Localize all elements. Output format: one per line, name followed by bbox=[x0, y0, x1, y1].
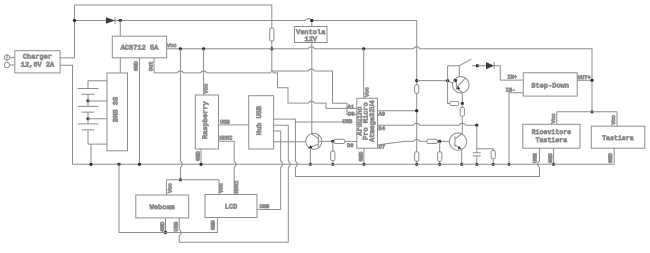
svg-text:BMS 3S: BMS 3S bbox=[112, 97, 120, 122]
svg-text:Vcc: Vcc bbox=[167, 43, 177, 49]
label USB ProMicro bbox=[343, 118, 356, 124]
switch SW1 bbox=[448, 59, 478, 65]
resistor R10 bbox=[332, 141, 334, 151]
svg-text:GND: GND bbox=[134, 61, 140, 71]
svg-text:Webcam: Webcam bbox=[150, 204, 175, 212]
node bus battery bbox=[89, 163, 92, 166]
svg-text:Vcc: Vcc bbox=[167, 183, 173, 193]
node bus ACS GND bbox=[138, 163, 141, 166]
wire ProMicro GND bbox=[363, 148, 365, 164]
wire Raspberry GND bbox=[200, 149, 202, 164]
node A0/R2 bbox=[415, 109, 418, 112]
svg-text:D4: D4 bbox=[379, 126, 385, 132]
node R3 / R4 bbox=[461, 102, 464, 105]
wire Hub w1 to ProMicro USB bbox=[274, 119, 357, 122]
wire Q1 base line bbox=[417, 81, 453, 84]
fan M1 Ventola 12V bbox=[295, 27, 328, 43]
node at R1 / 5V rail bbox=[270, 47, 273, 50]
node switch/diode bbox=[476, 64, 479, 67]
wire OUT+ bbox=[577, 79, 592, 81]
svg-text:D8: D8 bbox=[348, 111, 354, 117]
svg-text:GND: GND bbox=[358, 152, 364, 162]
resistor R9 bbox=[334, 139, 345, 143]
wire A0 to 12V pullup node bbox=[378, 110, 417, 112]
resistor R5 bbox=[427, 139, 438, 143]
wire Hub w1 branch down to Ricevitore USB line bbox=[295, 122, 539, 177]
wire Ventola+ to 12V bbox=[311, 21, 313, 27]
pin GND wire to ground bus bbox=[139, 58, 141, 165]
svg-text:12V: 12V bbox=[305, 36, 318, 44]
wire Raspberry Vcc drop bbox=[203, 49, 205, 95]
wire 12V rail bbox=[75, 19, 417, 49]
receiver U7 Ricevitore Tastiera bbox=[523, 124, 580, 148]
node R10 bus bbox=[331, 163, 334, 166]
svg-text:ACS712 5A: ACS712 5A bbox=[121, 45, 159, 53]
resistor R3 bbox=[450, 101, 459, 105]
wire ProMicro Vcc drop bbox=[363, 49, 365, 99]
node Q2 emitter bus bbox=[460, 163, 463, 166]
diode D1 bbox=[106, 17, 115, 24]
svg-text:Vcc: Vcc bbox=[611, 115, 617, 125]
transistor Q3 bbox=[306, 133, 322, 149]
svg-text:A0: A0 bbox=[379, 112, 385, 118]
wire 5V rail bbox=[167, 47, 592, 112]
svg-text:Raspberry: Raspberry bbox=[202, 101, 210, 139]
svg-text:Vcc: Vcc bbox=[219, 183, 225, 193]
wire Hub w2 to Webcam USB bbox=[179, 125, 290, 242]
wire cap node to R8 bbox=[477, 149, 493, 151]
diode D2 bbox=[477, 65, 486, 67]
wire Raspberry HDMI to LCD bbox=[219, 141, 237, 194]
wire Q3 emitter to bus bbox=[309, 149, 311, 164]
wire IN- to bus bbox=[509, 93, 523, 165]
svg-text:GND: GND bbox=[196, 151, 202, 161]
node OUT+ rail bbox=[590, 79, 593, 82]
svg-text:Vcc: Vcc bbox=[203, 84, 209, 94]
node rail Raspberry Vcc drop bbox=[202, 47, 205, 50]
wire D4 line bbox=[378, 123, 477, 125]
pin Out wire down bbox=[153, 58, 155, 73]
wire Q2 emitter to bus bbox=[461, 150, 463, 164]
svg-text:D9: D9 bbox=[347, 143, 353, 149]
charger CH1 bbox=[15, 51, 60, 73]
node R5 / R7 bbox=[438, 140, 441, 143]
node D4 line end bbox=[475, 124, 478, 127]
wire Hub w4 to Q3 base bbox=[274, 141, 306, 143]
node base line / switch riser bbox=[446, 79, 449, 82]
svg-text:LCD: LCD bbox=[225, 204, 238, 212]
battery B1 pack lead bottom bbox=[88, 143, 107, 145]
transistor Q1 bbox=[453, 77, 469, 93]
node R6 bus bbox=[415, 163, 418, 166]
node R8 bus bbox=[492, 163, 495, 166]
sensor U2 ACS712 5A bbox=[112, 36, 166, 58]
wire Hub w3 to LCD USB bbox=[257, 131, 283, 210]
node Q3 collector / R10 bbox=[331, 140, 334, 143]
svg-text:Charger: Charger bbox=[23, 54, 52, 62]
node Vcc tee bbox=[590, 110, 593, 113]
wire ground bus bbox=[73, 163, 615, 165]
wire GND return line bbox=[119, 164, 217, 232]
battery B1 pack lead top bbox=[88, 81, 107, 89]
resistor R1 bbox=[270, 28, 274, 41]
node ProMicro GND bus bbox=[362, 163, 365, 166]
svg-text:Tastiera: Tastiera bbox=[602, 135, 634, 142]
capacitor C1 bbox=[473, 153, 481, 156]
converter U6 Step-Down bbox=[523, 73, 577, 96]
svg-text:GND: GND bbox=[210, 220, 216, 230]
node Webcam GND line bbox=[164, 231, 167, 234]
resistor R8 bbox=[491, 151, 495, 159]
svg-text:GND: GND bbox=[160, 222, 166, 232]
pin IP- wire to BMS pack+ bbox=[119, 58, 121, 73]
wire Tastiera GND bbox=[613, 148, 615, 164]
svg-text:Vcc: Vcc bbox=[551, 114, 557, 124]
wire 12V into ACS712 pin IP+ bbox=[119, 21, 121, 37]
svg-text:USB: USB bbox=[220, 119, 230, 125]
resistor R7 bbox=[439, 141, 441, 151]
node C1 bus bbox=[475, 163, 478, 166]
node R2 top / Q1 base line bbox=[415, 79, 418, 82]
svg-text:Vcc: Vcc bbox=[365, 87, 371, 97]
svg-text:D7: D7 bbox=[379, 145, 385, 151]
hub U5 Hub USB bbox=[249, 96, 274, 149]
wire Vcc tee to receivers bbox=[557, 112, 617, 126]
svg-text:A1: A1 bbox=[348, 104, 354, 110]
wire Q3 collector right bbox=[318, 140, 334, 142]
node Q3 emitter bus bbox=[309, 163, 312, 166]
node rail webcam/LCD Vcc drop bbox=[179, 47, 182, 50]
svg-text:IN-: IN- bbox=[506, 87, 516, 93]
svg-text:Out: Out bbox=[148, 61, 154, 71]
svg-text:Hub USB: Hub USB bbox=[256, 106, 264, 135]
wire webcam/LCD Vcc drop bbox=[180, 49, 182, 180]
wire Webcam USB pin bbox=[179, 218, 181, 242]
wire battery- to ground bus bbox=[90, 144, 92, 164]
wire Ventola- down to Q3 bbox=[311, 43, 313, 135]
wire Q1 emitter down bbox=[461, 93, 463, 104]
wire R5 to Q2 base bbox=[438, 140, 450, 142]
computer U4 Raspberry bbox=[195, 95, 218, 149]
wire top charge loop bbox=[75, 5, 272, 58]
svg-text:Step-Down: Step-Down bbox=[531, 83, 569, 91]
node 12V at ACS712 input bbox=[119, 19, 122, 22]
wire R1 node down to Out line bbox=[271, 49, 273, 71]
module U3 BMS 3S bbox=[107, 73, 128, 151]
svg-text:USB: USB bbox=[260, 204, 270, 210]
wire Webcam GND bbox=[165, 218, 167, 233]
wire Ricevitore GND bbox=[553, 148, 555, 164]
wire charger+ to 12V line bbox=[60, 57, 74, 59]
wire D2 to IN+ bbox=[494, 66, 523, 80]
charger terminal - bbox=[4, 62, 9, 67]
svg-text:GND: GND bbox=[608, 153, 614, 163]
mcu U1 Arduino Pro Micro bbox=[357, 98, 378, 148]
svg-text:USB: USB bbox=[174, 221, 180, 231]
wire R1 to 5V rail bbox=[271, 41, 273, 49]
node IN- bus bbox=[507, 163, 510, 166]
wire Raspberry USB to Hub bbox=[219, 124, 249, 126]
node battery tap 2 bbox=[86, 117, 89, 120]
node Ventola 12V bbox=[310, 19, 313, 22]
resistor R6 bbox=[415, 152, 419, 162]
svg-text:USB: USB bbox=[343, 119, 353, 125]
node bus Raspberry GND bbox=[199, 163, 202, 166]
resistor R2 bbox=[415, 85, 419, 94]
wire staircase to D8 bbox=[272, 69, 357, 114]
node bus webcam GND drop bbox=[117, 163, 120, 166]
svg-text:GND: GND bbox=[548, 153, 554, 163]
svg-text:OUT+: OUT+ bbox=[578, 75, 591, 81]
wire Out staircase to A1 bbox=[154, 71, 357, 109]
svg-text:IN+: IN+ bbox=[507, 75, 517, 81]
wire R4 to Q2 collector bbox=[461, 116, 463, 133]
keyboard U8 Tastiera bbox=[591, 126, 645, 148]
svg-text:12,6V 2A: 12,6V 2A bbox=[21, 62, 55, 70]
wire Q1 collector to switch bbox=[458, 66, 460, 77]
wire tap1 to BMS bbox=[88, 101, 107, 106]
node 12V at charger riser bbox=[73, 19, 76, 22]
battery B1 cell 3 bbox=[78, 124, 99, 144]
wire Vcc distribution bbox=[166, 180, 219, 195]
svg-text:HDMI: HDMI bbox=[234, 181, 240, 194]
camera U9 Webcam bbox=[136, 195, 189, 218]
svg-text:USB: USB bbox=[533, 153, 539, 163]
node rail ProMicro Vcc drop bbox=[362, 47, 365, 50]
node R7 bus bbox=[438, 163, 441, 166]
svg-text:Tastiera: Tastiera bbox=[536, 137, 568, 144]
wire switch riser bbox=[448, 66, 450, 104]
display U10 LCD bbox=[205, 195, 257, 218]
charger terminal + bbox=[4, 55, 9, 60]
transistor Q2 bbox=[449, 133, 466, 150]
battery B1 cell 2 bbox=[78, 106, 99, 118]
wire D4 node down to capacitor bbox=[476, 125, 478, 153]
svg-text:Ricevitore: Ricevitore bbox=[532, 129, 571, 136]
node battery tap 1 bbox=[86, 99, 89, 102]
svg-text:HDMI: HDMI bbox=[220, 136, 233, 142]
resistor R4 bbox=[461, 104, 463, 108]
wire R9 to ProMicro D9 bbox=[345, 140, 357, 142]
svg-text:Atmega32U4: Atmega32U4 bbox=[369, 100, 377, 142]
node Ricevitore GND bus bbox=[552, 163, 555, 166]
battery B1 cell 1 bbox=[78, 89, 99, 102]
node Vcc distribution bbox=[179, 178, 182, 181]
wire D7 line bbox=[378, 139, 427, 145]
wire charger- down to ground bus bbox=[60, 65, 72, 164]
wire 12V drop with R2 R6 bbox=[416, 49, 418, 165]
wire tap2 to BMS bbox=[88, 119, 107, 124]
